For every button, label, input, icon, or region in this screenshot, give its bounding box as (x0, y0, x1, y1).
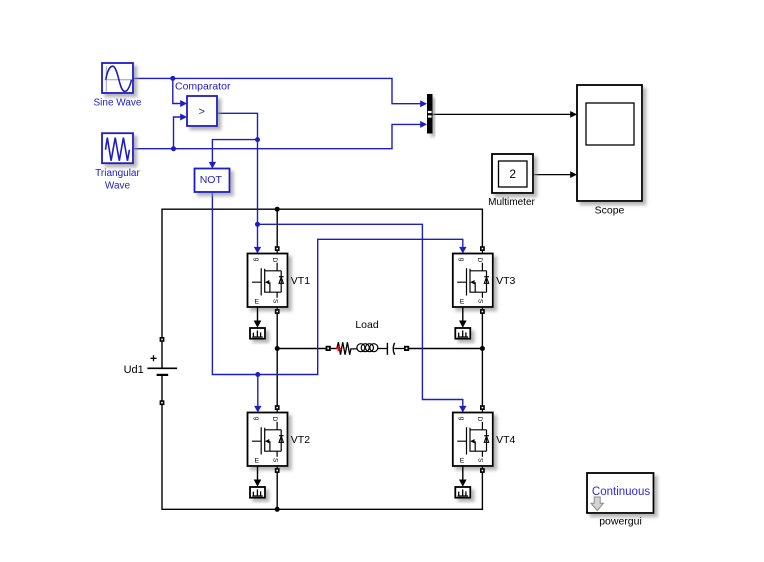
port pad: VT4 source (480, 466, 485, 473)
wire: node Q to VT4 gate (258, 224, 467, 412)
terminator block T3 (455, 328, 470, 339)
svg-text:E: E (255, 458, 260, 465)
wire: VT2 source down to bottom bus (276, 473, 278, 510)
port pad: load left terminal (326, 346, 331, 351)
terminator block T2 (250, 487, 265, 498)
svg-text:2: 2 (509, 167, 516, 181)
port pad: VT3 drain (480, 246, 485, 253)
port pad: VT1 drain (275, 246, 280, 253)
wire: Mux output to Scope input 1 (433, 111, 578, 118)
svg-text:Scope: Scope (595, 204, 625, 216)
wire: node P to VT1 gate (254, 140, 261, 254)
junction: node P comparator output branch (255, 137, 260, 142)
svg-text:Wave: Wave (105, 181, 131, 192)
wire: VT1 m output to terminator (254, 307, 262, 328)
wire: Load right terminal to node B (409, 348, 483, 350)
junction: node A (275, 346, 280, 351)
svg-text:Ud1: Ud1 (124, 364, 144, 376)
junction: top bus / VT1 drain (275, 207, 280, 212)
junction: triangular node (171, 146, 176, 151)
multimeter block (488, 154, 535, 208)
wire: VT2 m output to terminator (254, 466, 262, 487)
junction: node B (480, 346, 485, 351)
svg-text:Comparator: Comparator (175, 80, 231, 92)
port pad: VT2 source (275, 466, 280, 473)
svg-text:Continuous: Continuous (592, 486, 650, 498)
wire: node R to VT2 gate (254, 375, 261, 413)
svg-text:D: D (476, 258, 483, 263)
wire: capacitor to right pad (394, 348, 404, 350)
wire: VT3 source to VT4 drain (node B) (481, 314, 483, 407)
resistor R (337, 342, 358, 355)
svg-text:VT4: VT4 (496, 434, 515, 446)
svg-text:g: g (458, 258, 465, 262)
MOSFET VT3 (453, 254, 516, 308)
junction: sine node (170, 76, 175, 81)
svg-text:g: g (253, 258, 260, 262)
port pad: load right terminal (404, 346, 409, 351)
svg-text:Triangular: Triangular (95, 168, 140, 179)
source block: Sine Wave (94, 63, 142, 109)
DC voltage source Ud1 (124, 342, 177, 401)
wire: NOT output to VT3 gate (212, 192, 466, 375)
wire: DC bus top (Ud1 + terminal up and across to VT3 drain) (162, 209, 482, 338)
svg-text:S: S (271, 458, 278, 463)
svg-text:D: D (271, 258, 278, 263)
wire: DC bus bottom (Ud1 - terminal down and across to VT4 source) (162, 405, 482, 510)
port pad: Ud1 + terminal (160, 337, 165, 342)
comparator block (relational operator >) (175, 80, 231, 126)
wire: sine node to Comparator input 1 (173, 78, 187, 107)
svg-text:powergui: powergui (599, 516, 642, 528)
wire: drop from top bus to VT1 drain (276, 209, 278, 247)
svg-text:D: D (271, 417, 278, 422)
MOSFET VT1 (248, 254, 311, 308)
wire: Triangular Wave output to Mux input 2 (133, 121, 427, 149)
capacitor C (387, 343, 394, 355)
port pad: VT2 drain (275, 405, 280, 412)
port pad: Ud1 - terminal (160, 400, 165, 405)
wire: VT4 m output to terminator (459, 466, 467, 487)
svg-text:NOT: NOT (200, 174, 223, 186)
junction: node R on NOT output line (255, 372, 260, 377)
wire: Sine Wave output to Mux input 1 (133, 78, 427, 107)
svg-text:E: E (255, 299, 260, 306)
wire: Multimeter output to Scope input 2 (533, 171, 577, 178)
svg-text:g: g (458, 417, 465, 421)
wire: VT1 source to VT2 drain (node A) (276, 314, 278, 407)
svg-text:E: E (460, 458, 465, 465)
junction: bottom bus / VT2 source (275, 507, 280, 512)
MOSFET VT2 (248, 413, 311, 467)
scope block (577, 85, 642, 216)
wire: VT3 m output to terminator (459, 307, 467, 328)
svg-text:S: S (271, 299, 278, 304)
port pad: VT1 source (275, 307, 280, 314)
polarity marker (red +) (336, 346, 342, 351)
svg-text:Multimeter: Multimeter (488, 197, 535, 208)
terminator block T4 (455, 487, 470, 498)
wire: load left lead (331, 348, 337, 350)
wire: inductor to capacitor (378, 348, 387, 350)
source block: Triangular Wave (95, 133, 140, 192)
junction: node Q on VT1 gate line (255, 222, 260, 227)
svg-text:S: S (477, 458, 484, 463)
svg-text:E: E (460, 299, 465, 306)
svg-text:VT3: VT3 (496, 275, 515, 287)
port pad: VT3 source (480, 307, 485, 314)
wire: node P to NOT input (209, 140, 258, 169)
svg-text:S: S (477, 299, 484, 304)
svg-text:Load: Load (355, 319, 379, 331)
powergui block (587, 473, 654, 528)
mux block (427, 94, 433, 134)
terminator block T1 (250, 328, 265, 339)
svg-text:VT1: VT1 (291, 275, 310, 287)
svg-text:Sine Wave: Sine Wave (94, 98, 142, 109)
svg-text:VT2: VT2 (291, 434, 310, 446)
port pad: VT4 drain (480, 405, 485, 412)
inductor L (357, 344, 378, 352)
MOSFET VT4 (453, 413, 516, 467)
svg-text:g: g (253, 417, 260, 421)
svg-text:D: D (476, 417, 483, 422)
svg-text:>: > (198, 106, 204, 118)
wire: triangular node to Comparator input 2 (174, 114, 188, 149)
wire: Comparator output to node P (217, 113, 258, 139)
NOT gate block (195, 169, 230, 193)
wire: node A to Load left terminal (277, 348, 326, 350)
series RLC load branch (355, 319, 379, 331)
